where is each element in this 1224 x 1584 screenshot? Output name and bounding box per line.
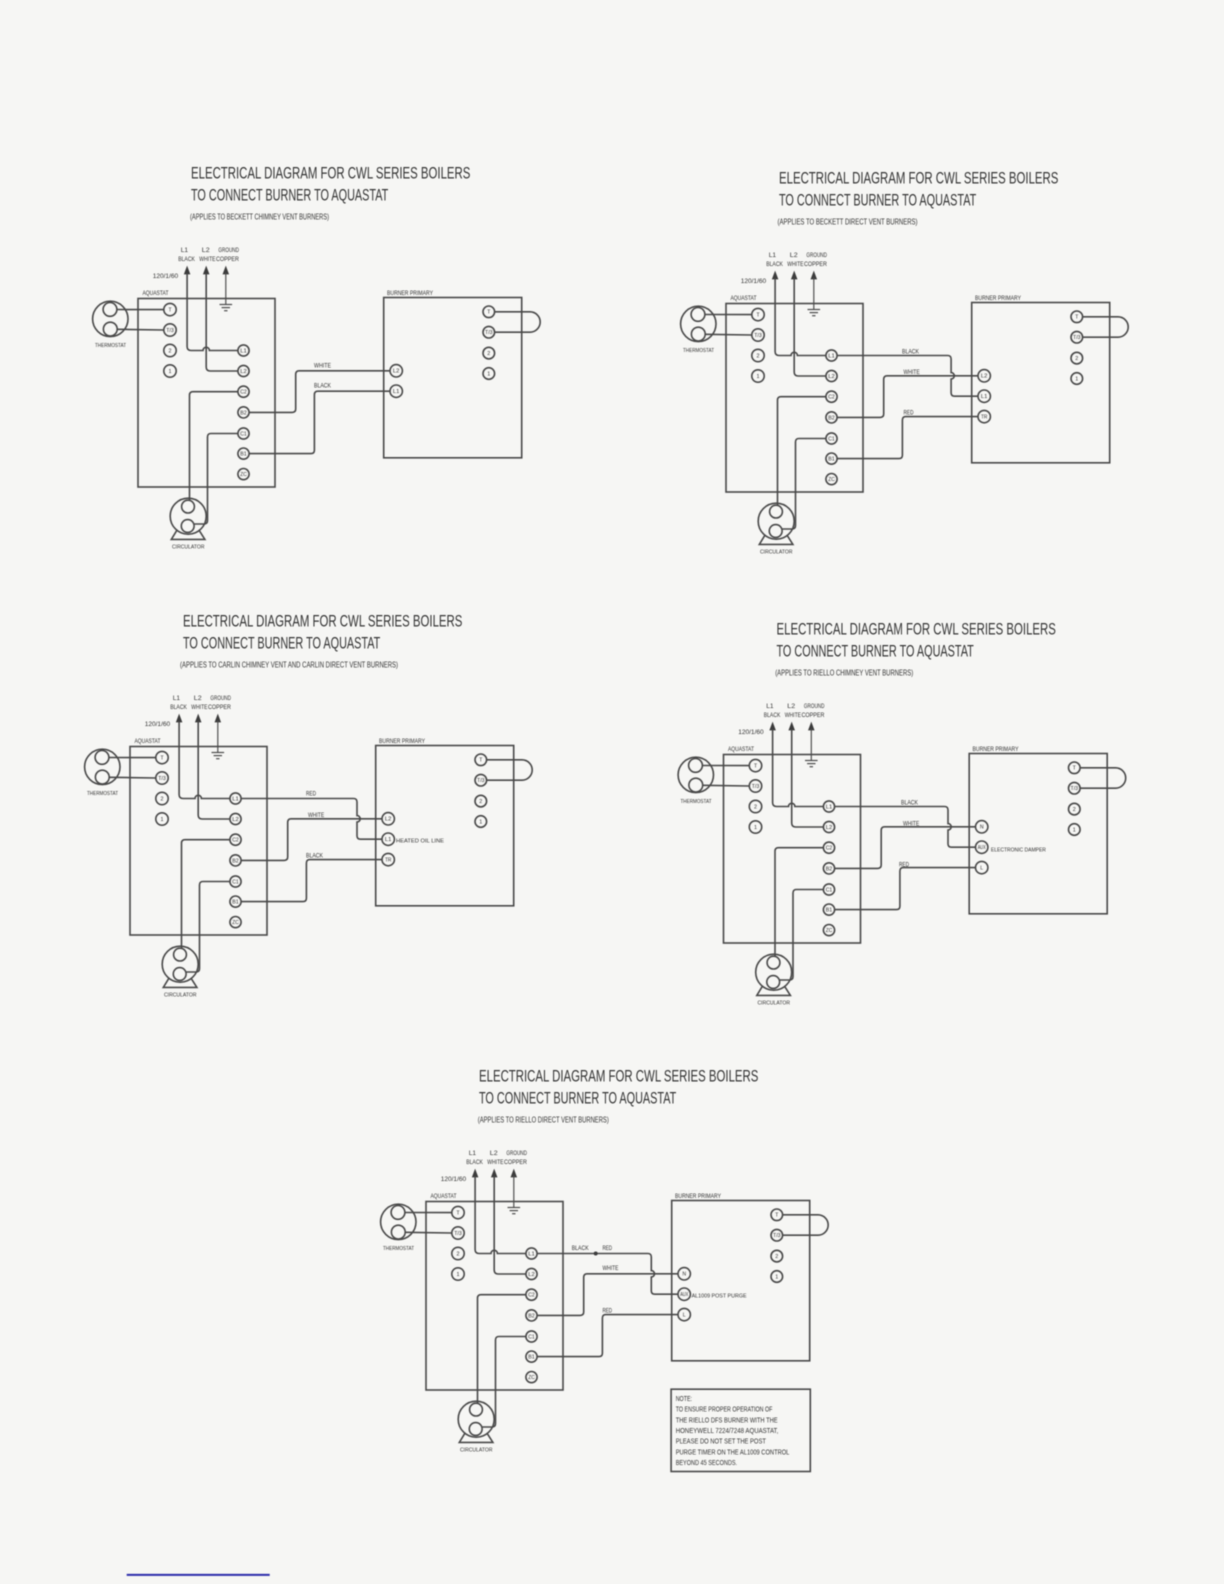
svg-text:ELECTRONIC DAMPER: ELECTRONIC DAMPER	[991, 847, 1046, 853]
diagram 3 aquastat terminal T/3	[156, 772, 168, 784]
diagram 3 wire RED L1 to burner	[241, 799, 382, 840]
diagram 5 aquastat terminal ZC	[526, 1372, 537, 1383]
svg-text:BURNER PRIMARY: BURNER PRIMARY	[675, 1193, 721, 1200]
diagram 4 supply arrow ground	[809, 723, 814, 730]
svg-text:ELECTRICAL DIAGRAM FOR CWL SER: ELECTRICAL DIAGRAM FOR CWL SERIES BOILER…	[183, 612, 462, 630]
diagram 3 wire thermostat to T/3	[109, 776, 156, 779]
diagram 3 aquastat box	[130, 747, 267, 936]
diagram 4 burner terminal AUX	[976, 841, 988, 853]
svg-text:CIRCULATOR: CIRCULATOR	[164, 993, 197, 999]
svg-text:(APPLIES TO BECKETT DIRECT VEN: (APPLIES TO BECKETT DIRECT VENT BURNERS)	[778, 217, 918, 227]
svg-text:C1: C1	[528, 1334, 535, 1340]
svg-text:L1: L1	[828, 353, 835, 359]
svg-text:WHITE: WHITE	[603, 1265, 619, 1272]
svg-text:WHITE: WHITE	[314, 362, 331, 369]
svg-text:2: 2	[1075, 356, 1078, 362]
diagram 5 aquastat terminal C1	[526, 1331, 537, 1342]
diagram 2 wire L1 supply to terminal L1	[775, 279, 826, 356]
diagram 4 ground	[805, 729, 818, 767]
diagram 5 wire BLACK L1 to burner	[537, 1254, 678, 1295]
diagram 3 burner primary box	[376, 746, 514, 906]
svg-text:THERMOSTAT: THERMOSTAT	[681, 799, 712, 805]
diagram 4 wire thermostat to T/3	[703, 784, 750, 787]
svg-text:RED: RED	[603, 1245, 613, 1252]
diagram 3 wire label BLACK	[306, 853, 323, 860]
svg-text:C2: C2	[528, 1293, 535, 1299]
svg-text:T/3: T/3	[454, 1231, 462, 1237]
diagram 1 wire thermostat to T	[117, 309, 164, 311]
diagram 1 supply arrow ground	[223, 267, 228, 274]
diagram 5 aquastat terminal B1	[526, 1351, 537, 1362]
svg-text:(APPLIES TO RIELLO CHIMNEY VEN: (APPLIES TO RIELLO CHIMNEY VENT BURNERS)	[775, 668, 913, 678]
diagram 5 aquastat terminal C2	[526, 1289, 537, 1300]
svg-text:L1: L1	[173, 695, 181, 702]
svg-text:TO CONNECT BURNER TO AQUASTAT: TO CONNECT BURNER TO AQUASTAT	[191, 186, 388, 204]
svg-text:1: 1	[757, 374, 760, 380]
svg-text:L2: L2	[385, 817, 392, 823]
diagram 3 wire C1 to circulator	[186, 882, 230, 973]
diagram 2 aquastat terminal C1	[826, 433, 837, 444]
diagram 2 aquastat terminal L2	[826, 370, 837, 381]
svg-text:L1: L1	[232, 796, 239, 802]
diagram 1 wire C2 to circulator	[190, 392, 239, 501]
diagram 3 supply labels L1 L2 GROUND / BLACK WHITE COPPER	[170, 695, 231, 711]
diagram 4 aquastat box	[724, 755, 861, 944]
diagram 5 thermostat	[381, 1204, 416, 1252]
diagram 3 thermostat	[85, 749, 120, 797]
svg-text:1: 1	[161, 817, 164, 823]
diagram 2 aquastat terminal T/3	[752, 329, 764, 341]
diagram 4 aquastat terminal 1	[749, 821, 761, 833]
diagram 2 aquastat terminal 2	[752, 349, 764, 361]
svg-text:L2: L2	[202, 247, 210, 254]
svg-text:B2: B2	[826, 866, 833, 872]
svg-text:B2: B2	[828, 415, 835, 421]
diagram 5 aquastat box	[426, 1202, 563, 1391]
svg-text:L2: L2	[240, 369, 247, 375]
diagram 4 BURNER PRIMARY label	[973, 746, 1019, 753]
svg-text:B2: B2	[240, 410, 247, 416]
svg-text:B1: B1	[232, 900, 239, 906]
svg-text:THERMOSTAT: THERMOSTAT	[95, 343, 126, 349]
diagram 5 aquastat terminal 2	[452, 1247, 464, 1259]
diagram 1 burner terminal T/3	[483, 326, 495, 338]
diagram 1 jumper T to T/3	[495, 312, 541, 332]
diagram 4 jumper T to T/3	[1080, 768, 1126, 788]
svg-text:AQUASTAT: AQUASTAT	[731, 295, 757, 302]
diagram 3 aquastat terminal T	[156, 751, 168, 763]
svg-text:WHITE: WHITE	[903, 821, 920, 828]
diagram 2 supply labels L1 L2 GROUND / BLACK WHITE COPPER	[766, 252, 827, 268]
svg-text:C2: C2	[240, 390, 247, 396]
diagram 2 supply arrow ground	[811, 272, 816, 279]
diagram 1 ground	[220, 273, 233, 311]
diagram 3 aquastat terminal L2	[230, 813, 241, 824]
svg-text:THERMOSTAT: THERMOSTAT	[683, 348, 714, 354]
diagram 1 aquastat terminal L2	[238, 365, 249, 376]
svg-text:T/3: T/3	[773, 1233, 781, 1239]
diagram 4 supply arrow L1	[770, 723, 775, 730]
diagram 2 burner terminal T	[1071, 311, 1083, 323]
diagram 4 wire L2 supply to terminal L2	[792, 730, 824, 828]
svg-text:1: 1	[169, 369, 172, 375]
svg-text:120/1/60: 120/1/60	[441, 1176, 467, 1183]
diagram 3 aquastat terminal ZC	[230, 917, 241, 928]
diagram 2 aquastat terminal B2	[826, 412, 837, 423]
diagram 4 aquastat terminal B2	[823, 863, 834, 874]
diagram 2 aquastat terminal B1	[826, 453, 837, 464]
diagram 5 label AL1009 POST PURGE	[692, 1294, 747, 1300]
diagram 1 wire label WHITE	[314, 362, 331, 369]
svg-text:THERMOSTAT: THERMOSTAT	[383, 1246, 414, 1252]
diagram 3 circulator	[162, 946, 198, 998]
diagram 4 aquastat terminal T/3	[749, 780, 761, 792]
svg-text:L2: L2	[490, 1150, 498, 1157]
diagram 3 aquastat terminal B1	[230, 896, 241, 907]
svg-text:GROUND: GROUND	[210, 695, 231, 702]
svg-text:C1: C1	[828, 436, 835, 442]
diagram 5 subtitle	[478, 1115, 609, 1125]
diagram 1 burner terminal 1	[483, 368, 495, 380]
diagram 3 aquastat terminal L1	[230, 793, 241, 804]
svg-text:BLACK: BLACK	[901, 800, 918, 807]
diagram 2 wire L2 supply to terminal L2	[794, 279, 826, 377]
diagram 1 aquastat terminal C2	[238, 386, 249, 397]
svg-text:B1: B1	[528, 1355, 535, 1361]
diagram 4 title	[777, 620, 1056, 660]
footer rule	[127, 1574, 270, 1576]
svg-text:T/3: T/3	[158, 776, 166, 782]
diagram 2 burner terminal 2	[1071, 352, 1083, 364]
diagram 5 wire label WHITE	[603, 1265, 619, 1272]
diagram 5 supply arrow ground	[511, 1170, 516, 1177]
diagram 5 wire C1 to circulator	[482, 1337, 526, 1428]
svg-text:BLACK: BLACK	[314, 383, 331, 390]
svg-text:CIRCULATOR: CIRCULATOR	[758, 1001, 791, 1007]
diagram 3 wire label RED	[306, 791, 316, 798]
diagram 4 thermostat	[678, 757, 713, 805]
diagram 2 circulator	[758, 503, 794, 555]
diagram 5 aquastat terminal B2	[526, 1310, 537, 1321]
svg-text:PLEASE DO NOT SET THE POST: PLEASE DO NOT SET THE POST	[676, 1439, 767, 1446]
svg-text:NOTE:: NOTE:	[676, 1396, 692, 1403]
diagram 5 BURNER PRIMARY label	[675, 1193, 721, 1200]
svg-text:ELECTRICAL DIAGRAM FOR CWL SER: ELECTRICAL DIAGRAM FOR CWL SERIES BOILER…	[479, 1067, 758, 1085]
svg-text:AUX: AUX	[680, 1292, 688, 1298]
diagram 5 burner terminal L	[678, 1308, 690, 1320]
svg-text:ZC: ZC	[828, 477, 835, 483]
diagram 2 ground	[808, 278, 821, 316]
diagram 4 burner terminal T	[1069, 762, 1081, 774]
diagram 1 wire thermostat to T/3	[117, 328, 164, 331]
diagram 1 burner terminal T	[483, 306, 495, 318]
diagram 1 burner primary box	[384, 298, 522, 458]
svg-text:AQUASTAT: AQUASTAT	[431, 1193, 457, 1200]
svg-text:120/1/60: 120/1/60	[738, 729, 764, 736]
svg-text:2: 2	[169, 348, 172, 354]
diagram 2 subtitle	[778, 217, 918, 227]
diagram 2 BURNER PRIMARY label	[975, 295, 1021, 302]
diagram 5 wire thermostat to T/3	[405, 1231, 452, 1234]
svg-text:BURNER PRIMARY: BURNER PRIMARY	[973, 746, 1019, 753]
diagram 4 wire C2 to circulator	[775, 848, 824, 957]
diagram 4 label 120/1/60	[738, 729, 764, 736]
diagram 2 aquastat terminal T	[752, 308, 764, 320]
svg-text:BLACK: BLACK	[766, 261, 783, 268]
diagram 4 aquastat terminal C1	[823, 884, 834, 895]
svg-text:2: 2	[757, 353, 760, 359]
diagram 2 label 120/1/60	[741, 278, 767, 285]
diagram 2 wire thermostat to T/3	[705, 333, 752, 336]
diagram 5 circulator	[458, 1401, 494, 1453]
diagram 3 wire L1 supply to terminal L1	[179, 722, 230, 799]
svg-text:COPPER: COPPER	[804, 261, 827, 268]
svg-text:B2: B2	[232, 858, 239, 864]
svg-text:B1: B1	[240, 452, 247, 458]
diagram 1 burner terminal L2	[390, 365, 402, 377]
svg-text:CIRCULATOR: CIRCULATOR	[460, 1448, 493, 1454]
diagram 3 supply arrow L1	[176, 715, 181, 722]
diagram 5 aquastat terminal 1	[452, 1268, 464, 1280]
svg-text:AQUASTAT: AQUASTAT	[728, 746, 754, 753]
svg-text:ZC: ZC	[232, 920, 239, 926]
diagram 4 burner terminal 1	[1069, 824, 1081, 836]
svg-text:BLACK: BLACK	[466, 1159, 483, 1166]
svg-text:N: N	[682, 1272, 686, 1278]
svg-text:L1: L1	[769, 252, 777, 259]
diagram 5 burner terminal AUX	[678, 1288, 690, 1300]
diagram 3 aquastat terminal 1	[156, 813, 168, 825]
diagram 4 circulator	[756, 954, 792, 1006]
diagram 4 burner terminal L	[976, 861, 988, 873]
diagram 2 supply arrow L1	[772, 272, 777, 279]
svg-text:C1: C1	[240, 431, 247, 437]
svg-text:BURNER PRIMARY: BURNER PRIMARY	[379, 738, 425, 745]
diagram 5 junction node	[594, 1252, 598, 1256]
svg-text:HONEYWELL 7224/7248 AQUASTAT,: HONEYWELL 7224/7248 AQUASTAT,	[676, 1428, 779, 1435]
svg-text:CIRCULATOR: CIRCULATOR	[760, 550, 793, 556]
diagram 1 title	[191, 164, 470, 204]
diagram 1 wire L1 supply to terminal L1	[187, 274, 238, 351]
diagram 3 aquastat terminal C2	[230, 834, 241, 845]
diagram 1 wire C1 to circulator	[194, 434, 238, 525]
diagram 5 wire L2 supply to terminal L2	[494, 1177, 526, 1275]
diagram 2 burner terminal 1	[1071, 373, 1083, 385]
diagram 3 wire WHITE B2 to burner	[241, 819, 382, 861]
svg-text:2: 2	[1073, 807, 1076, 813]
diagram 3 BURNER PRIMARY label	[379, 738, 425, 745]
diagram 5 aquastat terminal L2	[526, 1268, 537, 1279]
diagram 2 wire thermostat to T	[705, 314, 752, 316]
svg-text:L2: L2	[232, 817, 239, 823]
diagram 4 supply labels L1 L2 GROUND / BLACK WHITE COPPER	[764, 703, 825, 719]
diagram 5 wire WHITE B2 to burner	[537, 1274, 678, 1316]
svg-text:WHITE: WHITE	[199, 256, 216, 263]
svg-text:L2: L2	[194, 695, 202, 702]
diagram 2 wire WHITE B2 to burner	[837, 376, 978, 418]
svg-text:L2: L2	[528, 1272, 535, 1278]
svg-text:2: 2	[487, 351, 490, 357]
diagram 5 wire L1 supply to terminal L1	[475, 1177, 526, 1254]
diagram 1 aquastat terminal L1	[238, 345, 249, 356]
svg-text:WHITE: WHITE	[785, 712, 802, 719]
diagram 5 burner terminal T/3	[771, 1229, 783, 1241]
svg-text:HEATED OIL LINE: HEATED OIL LINE	[396, 838, 444, 844]
diagram 4 aquastat terminal C2	[823, 842, 834, 853]
diagram 1 aquastat terminal B1	[238, 448, 249, 459]
svg-text:GROUND: GROUND	[506, 1150, 527, 1157]
diagram 2 wire C2 to circulator	[778, 397, 827, 506]
diagram 4 burner terminal 2	[1069, 803, 1081, 815]
diagram 1 aquastat terminal B2	[238, 407, 249, 418]
svg-text:TO ENSURE PROPER OPERATION OF: TO ENSURE PROPER OPERATION OF	[676, 1407, 773, 1414]
diagram 3 AQUASTAT label	[135, 738, 161, 745]
diagram 5 title	[479, 1067, 758, 1107]
svg-text:L2: L2	[790, 252, 798, 259]
svg-text:C2: C2	[828, 395, 835, 401]
diagram 4 label ELECTRONIC DAMPER	[991, 847, 1046, 853]
svg-text:C2: C2	[232, 838, 239, 844]
svg-text:COPPER: COPPER	[216, 256, 239, 263]
diagram 3 aquastat terminal B2	[230, 855, 241, 866]
diagram 1 aquastat terminal 2	[164, 344, 176, 356]
diagram 3 subtitle	[180, 660, 398, 670]
diagram 3 burner terminal TR	[382, 853, 394, 865]
svg-text:WHITE: WHITE	[787, 261, 804, 268]
svg-text:ZC: ZC	[826, 928, 833, 934]
svg-text:T/3: T/3	[1073, 335, 1081, 341]
svg-text:L: L	[980, 866, 983, 872]
diagram 2 wire label BLACK	[902, 349, 919, 356]
svg-text:TO CONNECT BURNER TO AQUASTAT: TO CONNECT BURNER TO AQUASTAT	[183, 634, 380, 652]
svg-text:N: N	[980, 825, 984, 831]
svg-text:AL1009 POST PURGE: AL1009 POST PURGE	[692, 1294, 747, 1300]
svg-text:C2: C2	[826, 846, 833, 852]
diagram 5 wire label BLACK	[572, 1245, 589, 1252]
diagram 3 wire BLACK B1 to burner	[241, 860, 382, 902]
svg-text:C1: C1	[826, 887, 833, 893]
svg-text:WHITE: WHITE	[487, 1159, 504, 1166]
diagram 5 aquastat terminal T	[452, 1206, 464, 1218]
diagram 3 wire C2 to circulator	[182, 840, 231, 949]
svg-text:L1: L1	[766, 703, 774, 710]
svg-text:BURNER PRIMARY: BURNER PRIMARY	[975, 295, 1021, 302]
svg-text:1: 1	[775, 1274, 778, 1280]
svg-text:TO CONNECT BURNER TO AQUASTAT: TO CONNECT BURNER TO AQUASTAT	[779, 191, 976, 209]
diagram 4 wire label WHITE	[903, 821, 920, 828]
svg-text:BLACK: BLACK	[572, 1245, 589, 1252]
diagram 4 aquastat terminal B1	[823, 904, 834, 915]
svg-text:BLACK: BLACK	[178, 256, 195, 263]
diagram 5 note box	[671, 1389, 810, 1471]
svg-text:L2: L2	[826, 825, 833, 831]
diagram 1 wire L2 supply to terminal L2	[206, 274, 238, 372]
svg-text:L: L	[683, 1313, 686, 1319]
svg-text:L1: L1	[393, 389, 400, 395]
diagram 4 wire label BLACK	[901, 800, 918, 807]
diagram 1 BURNER PRIMARY label	[387, 290, 433, 297]
diagram 5 burner terminal T	[771, 1209, 783, 1221]
svg-text:THERMOSTAT: THERMOSTAT	[87, 791, 118, 797]
diagram 4 subtitle	[775, 668, 913, 678]
svg-text:2: 2	[479, 799, 482, 805]
diagram 2 aquastat terminal C2	[826, 391, 837, 402]
diagram 3 ground	[212, 721, 225, 759]
diagram 2 wire label WHITE	[904, 369, 921, 376]
diagram 1 wire WHITE B2 to burner	[249, 371, 390, 413]
diagram 3 supply arrow L2	[196, 715, 201, 722]
svg-text:COPPER: COPPER	[208, 704, 231, 711]
diagram 5 aquastat terminal L1	[526, 1248, 537, 1259]
svg-text:BLACK: BLACK	[902, 349, 919, 356]
svg-text:RED: RED	[899, 862, 909, 869]
diagram 1 AQUASTAT label	[143, 290, 169, 297]
diagram 2 wire label RED	[904, 409, 914, 416]
diagram 1 aquastat terminal C1	[238, 428, 249, 439]
diagram 4 aquastat terminal L1	[823, 801, 834, 812]
diagram 1 thermostat	[93, 301, 128, 349]
diagram 4 wire RED B1 to burner	[834, 868, 975, 910]
diagram 2 burner terminal L1	[978, 390, 990, 402]
diagram 2 burner primary box	[972, 303, 1110, 463]
diagram 4 wire thermostat to T	[702, 765, 749, 767]
diagram 2 burner terminal L2	[978, 370, 990, 382]
svg-text:ZC: ZC	[240, 472, 247, 478]
svg-text:2: 2	[754, 804, 757, 810]
svg-text:T/3: T/3	[166, 328, 174, 334]
diagram 3 burner terminal 1	[475, 816, 487, 828]
diagram 2 burner terminal TR	[978, 410, 990, 422]
svg-text:2: 2	[775, 1254, 778, 1260]
diagram 4 aquastat terminal T	[749, 759, 761, 771]
svg-text:(APPLIES TO BECKETT CHIMNEY VE: (APPLIES TO BECKETT CHIMNEY VENT BURNERS…	[190, 212, 329, 222]
svg-text:BLACK: BLACK	[170, 704, 187, 711]
svg-text:TO CONNECT BURNER TO AQUASTAT: TO CONNECT BURNER TO AQUASTAT	[777, 642, 974, 660]
svg-text:COPPER: COPPER	[802, 712, 825, 719]
diagram 2 thermostat	[681, 306, 716, 354]
diagram 3 supply arrow ground	[215, 715, 220, 722]
diagram 2 supply arrow L2	[792, 272, 797, 279]
diagram 1 subtitle	[190, 212, 329, 222]
svg-text:RED: RED	[306, 791, 316, 798]
svg-text:120/1/60: 120/1/60	[145, 721, 171, 728]
svg-text:120/1/60: 120/1/60	[741, 278, 767, 285]
diagram 3 burner terminal T	[475, 754, 487, 766]
diagram 5 wire RED B1 to burner	[537, 1315, 678, 1357]
diagram 1 aquastat terminal 1	[164, 365, 176, 377]
diagram 2 burner terminal T/3	[1071, 331, 1083, 343]
svg-text:GROUND: GROUND	[218, 247, 239, 254]
svg-text:ELECTRICAL DIAGRAM FOR CWL SER: ELECTRICAL DIAGRAM FOR CWL SERIES BOILER…	[777, 620, 1056, 638]
diagram 5 wire label RED	[603, 1307, 613, 1314]
svg-text:1: 1	[487, 371, 490, 377]
diagram 5 AQUASTAT label	[431, 1193, 457, 1200]
svg-text:GROUND: GROUND	[806, 252, 827, 259]
svg-text:B1: B1	[828, 457, 835, 463]
svg-text:PURGE TIMER ON THE AL1009 CONT: PURGE TIMER ON THE AL1009 CONTROL	[676, 1449, 790, 1456]
diagram 5 wire label RED	[603, 1245, 613, 1252]
diagram 2 wire C1 to circulator	[782, 439, 826, 530]
diagram 1 wire BLACK B1 to burner	[249, 391, 390, 453]
diagram 5 burner terminal 1	[771, 1271, 783, 1283]
svg-text:1: 1	[1075, 376, 1078, 382]
diagram 4 supply arrow L2	[789, 723, 794, 730]
svg-text:C1: C1	[232, 879, 239, 885]
diagram 5 burner terminal N	[678, 1268, 690, 1280]
diagram 3 burner terminal L1	[382, 833, 394, 845]
svg-text:WHITE: WHITE	[191, 704, 208, 711]
svg-text:CIRCULATOR: CIRCULATOR	[172, 545, 205, 551]
